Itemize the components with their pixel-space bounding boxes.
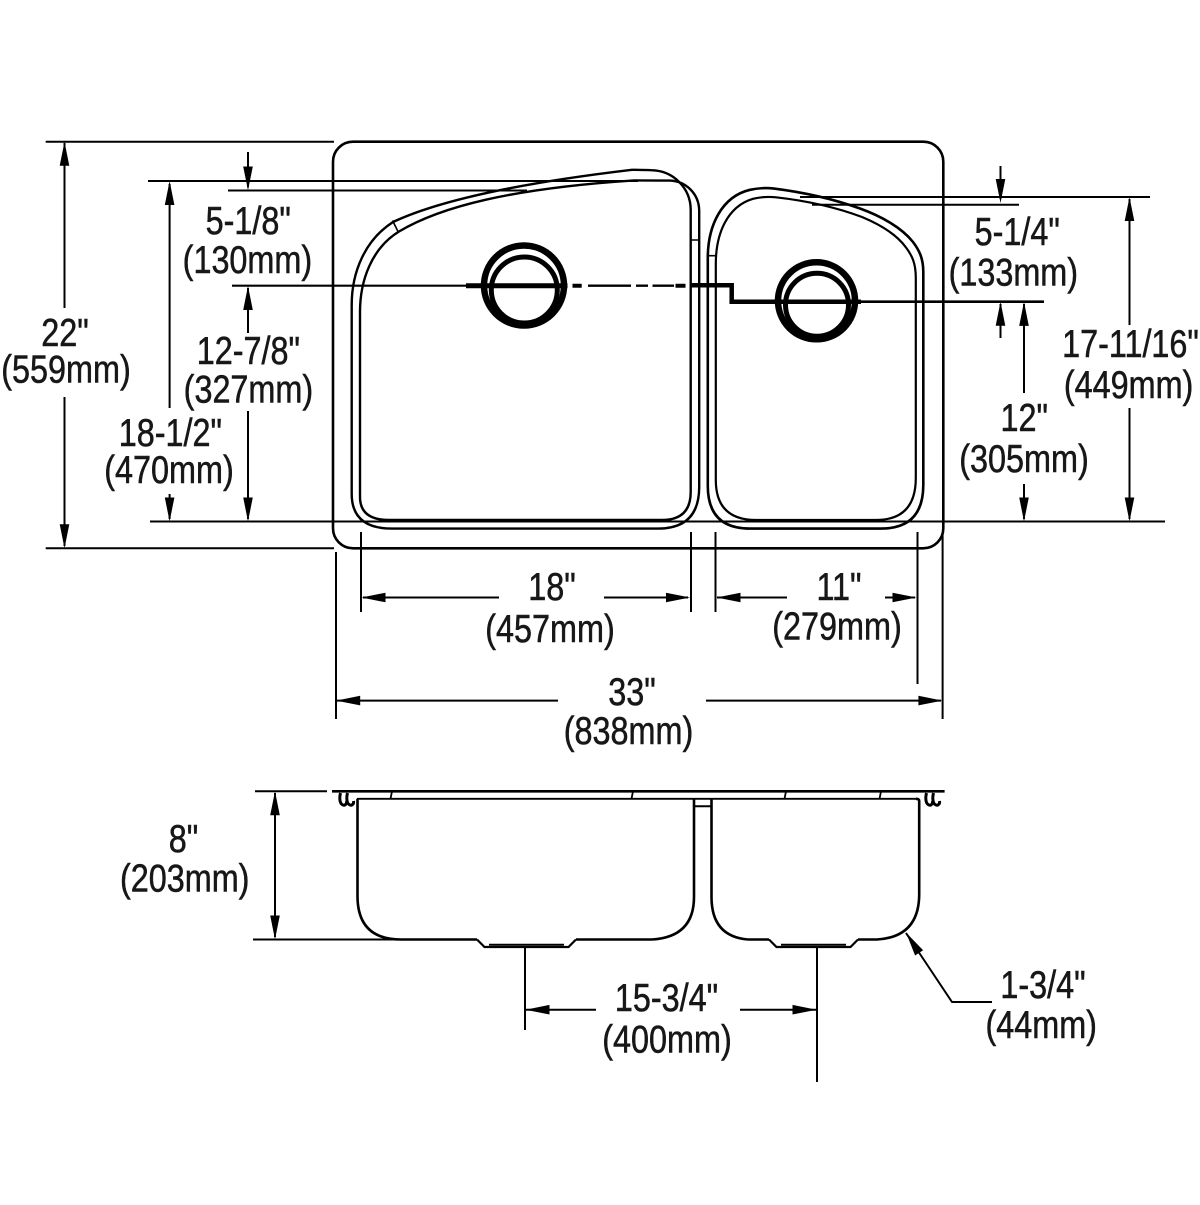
right mounting clip	[926, 793, 933, 805]
sink outer rim (top view)	[333, 142, 943, 549]
svg-text:(470mm): (470mm)	[104, 448, 233, 492]
svg-text:18": 18"	[528, 565, 575, 609]
dim 12-7/8 lower segment	[247, 411, 249, 519]
side view deck lower line	[357, 798, 918, 800]
drain centerlines below side view	[525, 947, 817, 1082]
extension line small bowl right edge	[917, 532, 919, 684]
drain centerline left thin segment	[232, 285, 466, 287]
svg-text:(449mm): (449mm)	[1064, 363, 1193, 407]
side view left wall and bottom	[358, 799, 478, 940]
svg-text:12-7/8": 12-7/8"	[197, 329, 300, 373]
dim 33 line	[337, 700, 941, 702]
dim 17-11/16 line	[1125, 197, 1135, 221]
svg-text:12": 12"	[1001, 396, 1048, 440]
drain centerline right thin segment	[861, 300, 1044, 303]
deck tick marks	[391, 791, 882, 799]
kink tick on large bowl band	[393, 221, 399, 232]
svg-text:5-1/4": 5-1/4"	[975, 210, 1060, 254]
dim 22in line	[64, 143, 66, 546]
bottom right bowl	[748, 938, 769, 941]
extension line large bowl right edge	[690, 532, 692, 612]
extension line sink top left	[46, 141, 334, 143]
svg-text:(305mm): (305mm)	[959, 437, 1088, 481]
right drain boss	[769, 940, 858, 948]
svg-text:(44mm): (44mm)	[985, 1003, 1096, 1047]
small bowl outer contour	[708, 188, 924, 529]
drain centerline thick through left drain	[466, 283, 568, 288]
extension line small bowl top outer	[800, 196, 1150, 198]
left drain inner circle	[491, 257, 557, 323]
svg-text:(130mm): (130mm)	[183, 238, 312, 282]
extension line large bowl top inner	[228, 190, 527, 192]
extension line bowls bottom	[150, 521, 1165, 523]
dim 8 ext lines	[253, 791, 399, 939]
drain centerline thick dashes	[573, 284, 686, 288]
dim 18 line	[363, 597, 688, 599]
svg-text:1-3/4": 1-3/4"	[1000, 963, 1085, 1007]
svg-text:17-11/16": 17-11/16"	[1062, 322, 1199, 366]
shared up arrow at drain line (5-1/8 and 12-7/8)	[247, 288, 249, 333]
divider left wall	[652, 799, 694, 940]
dim 5-1/8 upper arrow	[247, 152, 249, 187]
extension line sink right edge	[942, 532, 944, 719]
right drain outer circle	[778, 262, 855, 339]
bottom between drains	[576, 938, 652, 941]
left drain boss inner line	[489, 944, 564, 946]
extension line small bowl top inner	[812, 204, 1019, 206]
dim 18-1/2 line	[169, 184, 171, 519]
svg-text:11": 11"	[816, 565, 861, 609]
side view deck top line	[332, 790, 945, 793]
svg-text:(838mm): (838mm)	[564, 709, 693, 753]
drain centerline thin dashes	[588, 285, 674, 287]
side view right wall	[858, 799, 919, 940]
right drain inner circle	[786, 273, 849, 336]
left drain boss	[477, 940, 576, 948]
svg-text:(327mm): (327mm)	[184, 368, 313, 412]
divider right wall	[712, 799, 749, 940]
small bowl inner contour	[716, 197, 916, 520]
svg-text:5-1/8": 5-1/8"	[206, 199, 291, 243]
drain centerline jog at divider	[691, 285, 861, 302]
svg-text:8": 8"	[169, 817, 198, 861]
large bowl rim band (single loop)	[352, 170, 700, 529]
left mounting clip	[340, 793, 347, 805]
dim 5-1/4 arrows	[1000, 166, 1002, 199]
dimension texts	[1, 199, 1199, 1061]
extension line large bowl left edge	[360, 532, 362, 612]
divider tick marks	[691, 240, 716, 256]
left drain outer circle	[484, 246, 564, 326]
extension line large bowl top outer	[148, 180, 638, 182]
dim 8 line	[274, 793, 276, 937]
dim 11 line	[717, 597, 915, 599]
svg-text:(457mm): (457mm)	[485, 607, 614, 651]
divider top notch	[694, 805, 712, 807]
extension line sink left edge	[335, 552, 337, 719]
svg-text:(279mm): (279mm)	[772, 605, 901, 649]
dim 12 line	[1019, 302, 1029, 326]
svg-text:33": 33"	[608, 670, 655, 714]
svg-text:(133mm): (133mm)	[949, 251, 1078, 295]
svg-text:(203mm): (203mm)	[120, 857, 249, 901]
extension line sink bottom left	[46, 547, 334, 549]
leader 1-3/4	[906, 933, 992, 1002]
svg-text:15-3/4": 15-3/4"	[615, 976, 718, 1020]
right drain boss inner line	[781, 944, 846, 946]
dim 15-3/4 line	[525, 1009, 817, 1011]
extension line small bowl left edge	[715, 532, 717, 612]
svg-text:(400mm): (400mm)	[602, 1018, 731, 1062]
svg-text:(559mm): (559mm)	[1, 348, 130, 392]
